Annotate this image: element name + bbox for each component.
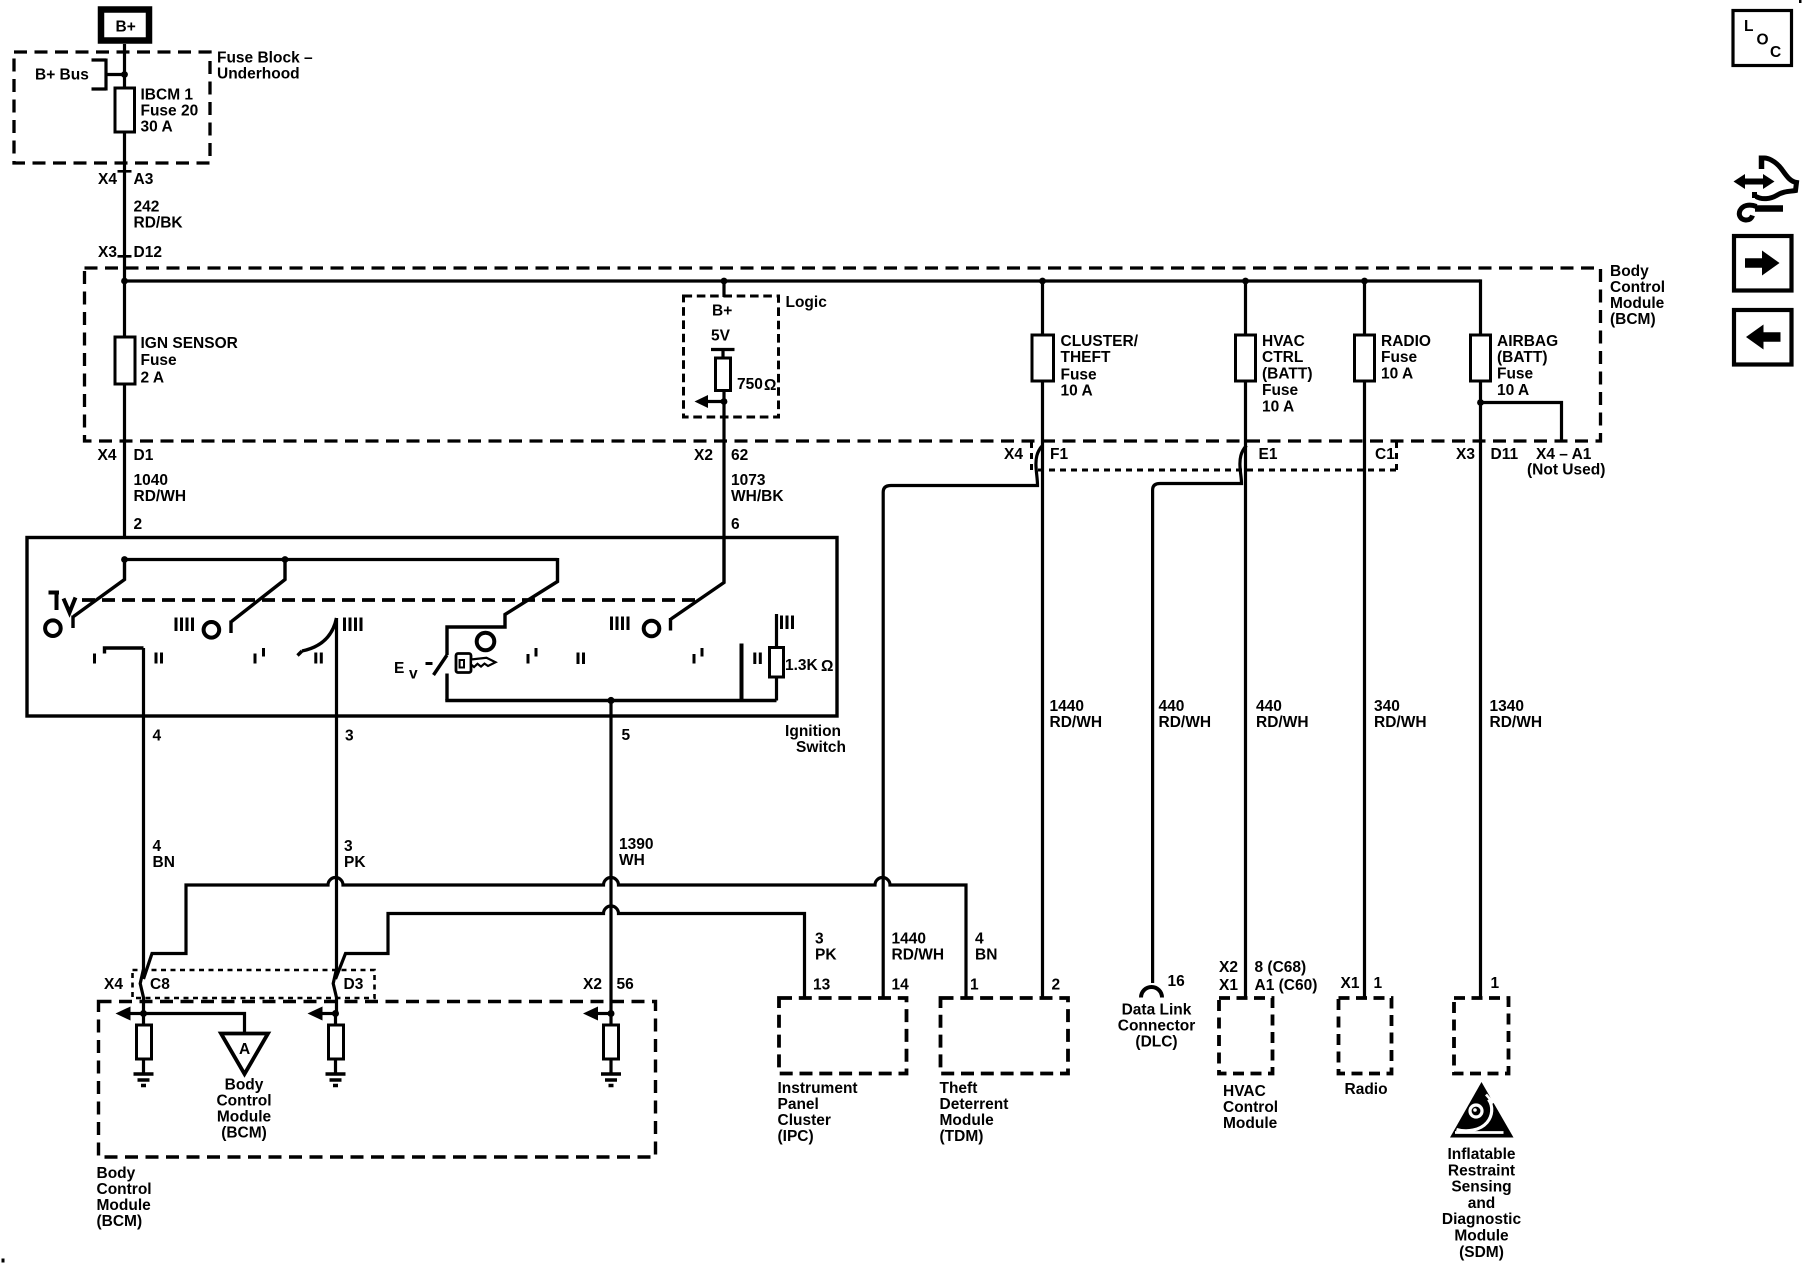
svg-text:Inflatable: Inflatable [1447,1146,1515,1163]
svg-text:(BATT): (BATT) [1497,349,1548,366]
resistor 1.3K ticks IIII [782,616,793,630]
svg-text:CTRL: CTRL [1262,349,1303,366]
svg-text:Fuse: Fuse [141,352,178,369]
switch common rail wire [125,558,558,561]
wire from B+ to fuse block [123,44,126,88]
junction dot airbag branch [1477,399,1484,406]
wire 5 inside switch [609,701,612,717]
svg-text:X4: X4 [104,976,123,993]
HVAC control module dashed box [1219,998,1273,1074]
navigation squiggle icon [1734,156,1797,221]
fuse AIRBAG (BATT) 10A [1471,333,1559,399]
run position glyph Ev [394,660,418,683]
label Fuse Block - Underhood [217,50,313,83]
position ticks II pole 1 [156,653,162,664]
label Instrument Panel Cluster (IPC) [778,1080,858,1145]
svg-text:A: A [239,1041,250,1058]
wire 1340 RD/WH airbag fuse to SDM [1479,381,1482,998]
svg-text:440: 440 [1256,698,1282,715]
signal arrow left wire 3 [308,1007,336,1021]
svg-text:6: 6 [731,516,740,533]
junction dot bus at 242 wire [121,278,128,285]
wire label 340 RD/WH [1374,698,1427,731]
wire label 4 BN [153,838,175,871]
pin labels X3 D12 [98,244,162,261]
fuse HVAC CTRL (BATT) 10A [1236,333,1313,416]
ground symbol wire 4 [134,1074,154,1086]
svg-text:Module: Module [97,1197,152,1214]
svg-text:Logic: Logic [786,294,828,311]
svg-text:E: E [394,660,404,677]
svg-text:Module: Module [940,1112,995,1129]
svg-text:10 A: 10 A [1061,383,1093,400]
airbag warning triangle SDM [1450,1082,1514,1138]
connector tick X4 A3 [118,170,132,173]
svg-text:Module: Module [1610,295,1665,312]
svg-text:1340: 1340 [1490,698,1524,715]
svg-text:PK: PK [815,947,837,964]
svg-text:1: 1 [1491,975,1500,992]
svg-text:4: 4 [975,931,984,948]
BCM bottom connector sub dashed box [1032,442,1397,470]
svg-text:RD/WH: RD/WH [1490,714,1543,731]
svg-text:Radio: Radio [1345,1081,1388,1098]
svg-text:HVAC: HVAC [1223,1083,1266,1100]
position tick I pole 3 [528,648,536,664]
svg-text:2: 2 [134,516,143,533]
Radio pin labels X1 1 [1341,975,1383,992]
svg-text:X3: X3 [98,244,117,261]
signal arrow left wire 1390 [583,1007,611,1021]
svg-text:(DLC): (DLC) [1135,1034,1177,1051]
svg-text:X2: X2 [1219,959,1238,976]
ignition switch box [27,538,837,717]
svg-text:Ignition: Ignition [785,723,841,740]
wire label 1440 RD/WH TDM branch [1050,698,1103,731]
switch blade 2 [231,560,285,634]
svg-text:Ω: Ω [764,377,776,394]
IPC dashed box [779,998,907,1074]
fuse HVAC CTRL wire from bus [1244,281,1247,335]
svg-text:Body: Body [225,1077,264,1094]
5V supply bar [711,350,735,359]
svg-text:PK: PK [344,854,366,871]
label Body Control Module (BCM) under triangle [216,1077,271,1142]
switch blade 3 arc [298,618,337,656]
svg-text:Panel: Panel [778,1096,819,1113]
key switch feed elbow [447,558,558,655]
wire branch 440 to DLC via S-jog [1153,446,1247,984]
wire 3 inside switch [335,618,338,716]
svg-text:242: 242 [134,199,160,216]
fuse CLUSTER/THEFT wire from bus [1041,281,1044,335]
label Inflatable Restraint Sensing and Diagnostic Module (SDM) [1442,1146,1522,1261]
label Theft Deterrent Module (TDM) [940,1080,1009,1145]
fuse IBCM 1 Fuse 20 30A [115,87,198,136]
LOC reference box [1733,11,1792,66]
pin label X2 56 [583,976,634,993]
svg-text:A1 (C60): A1 (C60) [1255,977,1318,994]
connector tick X3 D12 [118,255,132,258]
page mark top right [1799,0,1802,3]
svg-text:RADIO: RADIO [1381,333,1431,350]
junction dot bus at hvac fuse [1242,278,1249,285]
svg-text:Restraint: Restraint [1448,1162,1515,1179]
svg-text:Fuse: Fuse [1381,349,1418,366]
svg-text:Module: Module [217,1109,272,1126]
svg-text:Deterrent: Deterrent [940,1096,1009,1113]
resistor 1.3K ohm [770,648,834,678]
svg-text:Sensing: Sensing [1451,1179,1511,1196]
contact circle 2 [204,622,220,638]
ground symbol wire 1390 [601,1074,621,1086]
stationary contact line II [740,644,744,701]
svg-text:Instrument: Instrument [778,1080,858,1097]
svg-text:RD/WH: RD/WH [1374,714,1427,731]
svg-text:Control: Control [97,1181,152,1198]
TDM dashed box [941,998,1069,1074]
branch line wire 3 to IPC pin 13 with hop [336,906,805,998]
svg-text:56: 56 [617,976,635,993]
svg-text:AIRBAG: AIRBAG [1497,333,1558,350]
wire 340 RD/WH radio fuse to Radio [1363,381,1366,998]
svg-text:62: 62 [731,447,748,464]
svg-text:X4: X4 [98,447,117,464]
svg-text:(BCM): (BCM) [1610,311,1656,328]
svg-text:4: 4 [153,838,162,855]
junction dot rail at wire 2 [121,556,128,563]
svg-text:Module: Module [1454,1228,1509,1245]
svg-text:WH/BK: WH/BK [731,488,784,505]
svg-text:Control: Control [1223,1099,1278,1116]
position tick I pole 2 [255,648,264,664]
fuse RADIO 10A [1355,333,1431,383]
dash before key blade [426,662,433,665]
junction dot wire 1390 in BCM [608,1010,615,1017]
logic dashed box [684,296,779,417]
svg-text:(BCM): (BCM) [97,1213,143,1230]
label Body Control Module (BCM) right side [1610,263,1665,328]
wire label 242 RD/BK [134,199,184,232]
key switch bottom rail [447,699,777,701]
svg-text:440: 440 [1159,698,1185,715]
internal resistor wire 3 [329,1014,344,1074]
svg-text:1040: 1040 [134,472,168,489]
svg-text:Fuse 20: Fuse 20 [141,103,199,120]
svg-text:RD/WH: RD/WH [1159,714,1212,731]
DLC connector half circle [1141,987,1162,998]
wire 1440 RD/WH cluster fuse to TDM [1041,381,1044,998]
wire from bus into logic box [722,281,725,297]
node B+ battery feed box [101,10,149,41]
position ticks IIII left of circle 2 [176,618,193,632]
junction dot rail at blade 2 [282,556,289,563]
svg-text:Body: Body [1610,263,1649,280]
label Ignition Switch [785,723,846,756]
junction dot bus at radio fuse [1361,278,1368,285]
svg-text:10 A: 10 A [1262,399,1294,416]
junction dot wire 4 in BCM [140,1010,147,1017]
contact circle key switch [477,633,495,651]
contact circle 4 [644,621,660,637]
pin labels X4 D1 [98,447,154,464]
svg-text:3: 3 [345,728,354,745]
BCM lower dashed box [99,1002,656,1158]
ground symbol wire 3 [326,1074,346,1086]
svg-text:1: 1 [1374,975,1383,992]
svg-text:Underhood: Underhood [217,66,300,83]
svg-text:1440: 1440 [892,931,926,948]
svg-text:RD/WH: RD/WH [1050,714,1103,731]
svg-text:C8: C8 [150,976,170,993]
fuse AIRBAG wire corner from bus [1479,279,1482,335]
position tick I pole 1 [93,654,96,664]
wire label 1073 WH/BK [731,472,784,505]
wire below 750 resistor [722,391,725,538]
wire 4 inside switch [142,648,145,716]
wire 1040 inside BCM down [123,384,126,538]
svg-text:Theft: Theft [940,1080,978,1097]
wire label 1040 RD/WH [134,472,187,505]
wire label 440 RD/WH DLC branch [1159,698,1212,731]
svg-text:RD/WH: RD/WH [892,947,945,964]
svg-text:B+: B+ [712,303,732,320]
pin labels X4 A3 [98,171,154,188]
B+ bus bracket stub [92,59,125,91]
nav arrow right box [1734,236,1792,291]
svg-text:Cluster: Cluster [778,1112,831,1129]
position ticks II pole 2 [316,653,322,664]
svg-text:1390: 1390 [619,836,653,853]
svg-text:Fuse: Fuse [1061,367,1098,384]
svg-text:RD/WH: RD/WH [1256,714,1309,731]
position tick I pole 4 [694,648,702,664]
wire branch 1440 to IPC via S-jog [883,446,1042,999]
internal resistor wire 1390 [604,1014,619,1074]
SDM dashed box [1454,998,1509,1074]
svg-text:Module: Module [1223,1115,1278,1132]
svg-text:X2: X2 [694,447,713,464]
wire branch to X4-A1 not used [1481,403,1562,442]
radio dashed box [1339,998,1392,1074]
wire label 3 PK [344,838,366,871]
wire 440 RD/WH hvac fuse to HVAC module [1244,381,1247,998]
junction dot wire 3 in BCM [332,1010,339,1017]
contact bracket pole 1 [105,648,144,654]
svg-text:Data Link: Data Link [1122,1002,1192,1019]
svg-text:340: 340 [1374,698,1400,715]
position ticks II pole 4 [755,653,761,665]
internal resistor wire 4 [137,1014,152,1074]
svg-text:B+: B+ [116,19,136,36]
connector dotted box X4 C8 D3 [133,970,375,998]
svg-text:HVAC: HVAC [1262,333,1305,350]
svg-text:16: 16 [1168,973,1186,990]
HVAC pin labels X2 8 (C68) X1 A1 (C60) [1219,959,1317,994]
svg-text:E1: E1 [1259,446,1278,463]
svg-text:750: 750 [737,376,763,393]
svg-text:1073: 1073 [731,472,766,489]
BCM dashed box [85,268,1601,441]
pin label X4 - A1 (Not Used) [1527,446,1605,479]
svg-text:Connector: Connector [1118,1018,1196,1035]
junction dot bus at cluster fuse [1039,278,1046,285]
wire 1390 WH below switch [609,716,612,1014]
resistor 750 ohm [716,358,777,394]
svg-text:Ω: Ω [821,658,833,675]
svg-text:Fuse: Fuse [1497,366,1534,383]
svg-text:D1: D1 [134,447,154,464]
svg-text:4: 4 [153,728,162,745]
key switch lower leg [445,674,448,701]
nav arrow left box [1734,310,1792,365]
svg-text:O: O [1757,32,1769,49]
svg-text:and: and [1468,1195,1496,1212]
svg-text:WH: WH [619,852,645,869]
svg-text:A3: A3 [134,171,154,188]
wire 3 PK below switch [333,716,336,1014]
svg-text:(IPC): (IPC) [778,1128,814,1145]
svg-text:D12: D12 [134,244,162,261]
wire label 3 PK at IPC [815,931,837,964]
wire label 1390 WH [619,836,653,869]
key icon [456,654,496,673]
svg-text:1: 1 [970,977,979,994]
junction dot bottom rail wire 5 [607,697,614,704]
svg-text:(SDM): (SDM) [1459,1244,1504,1261]
wire to ground triangle A [144,1014,245,1034]
svg-text:8 (C68): 8 (C68) [1255,959,1307,976]
resistor 1.3K wire bottom [775,677,778,701]
key switch blade [434,655,448,675]
signal arrow left in logic [695,395,725,408]
fuse RADIO wire from bus [1363,281,1366,335]
svg-text:2: 2 [1052,977,1061,994]
switch position dashed line [82,598,700,602]
fuse CLUSTER/THEFT 10A [1032,333,1139,400]
wire bus down to ign sensor fuse [123,281,126,337]
label HVAC Control Module [1223,1083,1278,1132]
svg-text:(BCM): (BCM) [221,1125,267,1142]
svg-text:X1: X1 [1341,975,1360,992]
svg-text:3: 3 [344,838,353,855]
svg-text:BN: BN [153,854,175,871]
resistor 1.3K wire top [775,614,778,648]
switch blade 1 [73,560,125,629]
svg-text:3: 3 [815,931,824,948]
wire label 1440 RD/WH at IPC [892,931,945,964]
svg-text:14: 14 [892,977,910,994]
svg-text:RD/BK: RD/BK [134,215,184,232]
svg-text:1440: 1440 [1050,698,1084,715]
svg-text:5V: 5V [711,328,731,345]
position ticks IIII left of circle 4 [612,617,629,631]
ground reference triangle A [221,1034,268,1075]
svg-text:v: v [409,666,418,683]
svg-text:Switch: Switch [796,739,846,756]
svg-text:Fuse Block –: Fuse Block – [217,50,313,67]
accessory position glyph [49,591,76,613]
svg-text:Fuse: Fuse [1262,382,1299,399]
svg-text:13: 13 [813,977,831,994]
svg-text:10 A: 10 A [1381,366,1413,383]
svg-text:X1: X1 [1219,977,1238,994]
svg-text:2 A: 2 A [141,370,165,387]
svg-text:Diagnostic: Diagnostic [1442,1211,1522,1228]
svg-text:BN: BN [975,947,997,964]
svg-text:C1: C1 [1375,446,1395,463]
svg-text:(BATT): (BATT) [1262,366,1313,383]
position ticks II pole 3 [578,653,584,665]
contact circle 1 [45,620,61,636]
page mark bottom left [2,1259,5,1263]
wire label 4 BN at TDM [975,931,997,964]
svg-text:THEFT: THEFT [1061,349,1111,366]
label Body Control Module (BCM) bottom left [97,1165,152,1230]
wire label 1340 RD/WH [1490,698,1543,731]
svg-text:IGN SENSOR: IGN SENSOR [141,335,238,352]
bus wire inside BCM [125,279,1481,282]
junction dot bus at logic [721,278,728,285]
svg-text:5: 5 [622,727,631,744]
svg-text:10 A: 10 A [1497,382,1529,399]
signal arrow left wire 4 [116,1007,144,1021]
svg-text:F1: F1 [1050,446,1068,463]
junction dot logic output [721,398,728,405]
branch line wire 4 to TDM pin 1 with hops [144,878,967,998]
wire 242 RD/BK from fuse block to BCM [123,132,126,281]
fuse IGN SENSOR 2A [115,335,238,387]
junction dot B+ bus [121,71,128,78]
svg-text:X4: X4 [98,171,117,188]
svg-text:(Not Used): (Not Used) [1527,462,1605,479]
svg-text:Body: Body [97,1165,136,1182]
svg-text:IBCM 1: IBCM 1 [141,87,194,104]
svg-text:X4: X4 [1004,446,1023,463]
svg-text:X2: X2 [583,976,602,993]
wire label 440 RD/WH HVAC branch [1256,698,1309,731]
fuse block underhood dashed box [14,52,210,163]
svg-text:1.3K: 1.3K [785,657,819,674]
svg-text:CLUSTER/: CLUSTER/ [1061,333,1139,350]
svg-text:X3: X3 [1456,446,1475,463]
wire 4 BN below switch [140,716,143,1014]
svg-text:Control: Control [216,1093,271,1110]
svg-text:L: L [1744,18,1753,35]
svg-text:C: C [1770,44,1781,61]
svg-text:D3: D3 [344,976,364,993]
svg-text:RD/WH: RD/WH [134,488,187,505]
svg-text:Control: Control [1610,279,1665,296]
svg-text:X4 – A1: X4 – A1 [1536,446,1592,463]
svg-text:30 A: 30 A [141,119,173,136]
switch blade 4 [671,538,725,631]
svg-text:(TDM): (TDM) [940,1128,984,1145]
pin labels X2 62 [694,447,748,464]
svg-text:B+ Bus: B+ Bus [35,67,89,84]
svg-text:D11: D11 [1491,446,1519,463]
label Data Link Connector (DLC) [1118,1002,1196,1051]
position ticks IIII right of wire 3 [345,618,362,632]
